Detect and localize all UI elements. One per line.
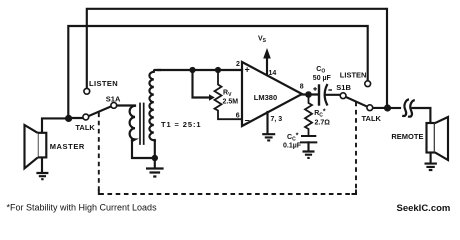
- svg-text:2.5M: 2.5M: [223, 99, 239, 106]
- wire right TALK contact to remote node: [373, 107, 388, 109]
- svg-text:TALK: TALK: [75, 123, 95, 132]
- ground master symbol: [36, 173, 48, 179]
- junction node RV top: [215, 67, 221, 73]
- break symbol left squiggle: [402, 99, 409, 116]
- transformer T1 secondary winding: [149, 70, 160, 141]
- op-amp ground stub pins 7,3: [266, 112, 268, 133]
- svg-text:CC*: CC*: [287, 133, 299, 143]
- svg-text:LISTEN: LISTEN: [340, 70, 367, 79]
- ground master stub: [41, 157, 43, 172]
- wire Cc to ground: [307, 142, 309, 151]
- op-amp U1 LM380 triangle: [242, 62, 302, 126]
- wire S1A to transformer primary: [117, 104, 135, 106]
- wire RV wiper tap: [193, 70, 210, 98]
- capacitor Co curved plate: [325, 85, 327, 105]
- svg-text:6: 6: [236, 113, 240, 120]
- transformer T1 primary winding: [130, 106, 135, 141]
- wire output pin 8: [302, 93, 318, 95]
- contact S1B: [340, 93, 346, 99]
- svg-text:CO: CO: [316, 66, 325, 75]
- dashed mechanical link S1: [99, 100, 356, 194]
- wire primary bottom to ground node: [132, 140, 155, 158]
- wire Co to S1B contact: [325, 94, 340, 96]
- svg-text:8: 8: [300, 84, 304, 91]
- speaker REMOTE body: [427, 123, 435, 153]
- contact TALK left: [83, 114, 89, 120]
- wire ground node stub: [154, 158, 156, 168]
- label plus Co: [313, 87, 317, 91]
- svg-text:50 µF: 50 µF: [313, 75, 332, 82]
- contact LISTEN right: [365, 81, 371, 87]
- svg-text:0.1µF: 0.1µF: [283, 142, 302, 149]
- wire remote node to break: [388, 107, 401, 109]
- svg-text:2: 2: [236, 61, 240, 68]
- Vs supply line pin 14: [266, 57, 268, 75]
- svg-text:*For Stability with High Curre: *For Stability with High Current Loads: [7, 203, 158, 213]
- label minus Co: [328, 89, 332, 91]
- wire master speaker to talk node: [42, 118, 69, 132]
- junction node transformer ground: [152, 155, 158, 161]
- break symbol right squiggle: [408, 100, 415, 117]
- switch arm S1B: [346, 97, 368, 107]
- svg-text:7, 3: 7, 3: [271, 116, 283, 123]
- speaker MASTER cone: [25, 125, 38, 168]
- wire break to remote speaker: [413, 108, 431, 123]
- svg-text:LM380: LM380: [254, 93, 277, 102]
- contact LISTEN left: [84, 88, 90, 94]
- svg-text:2.7Ω: 2.7Ω: [315, 120, 331, 127]
- wire top inner loop: [68, 26, 367, 117]
- ground remote stub: [430, 153, 432, 164]
- junction node master/talk: [65, 115, 72, 122]
- ground op-amp symbol: [262, 134, 275, 140]
- svg-text:S1A: S1A: [106, 94, 121, 103]
- svg-text:+: +: [245, 65, 250, 75]
- wire node to TALK contact: [69, 117, 83, 119]
- svg-text:VS: VS: [258, 36, 267, 45]
- junction node output: [305, 91, 312, 98]
- svg-text:S1B: S1B: [336, 83, 351, 92]
- dashed link corner right: [352, 190, 357, 195]
- svg-text:SeekIC.com: SeekIC.com: [397, 203, 451, 214]
- wire secondary bottom to ground node: [154, 140, 156, 158]
- RV wiper arrowhead: [209, 94, 215, 101]
- junction node remote: [384, 104, 391, 111]
- svg-text:LISTEN: LISTEN: [89, 79, 118, 88]
- zobel RC 2.7 ohm zigzag: [305, 95, 312, 136]
- switch arm S1A: [88, 106, 111, 116]
- svg-text:RC*: RC*: [314, 109, 326, 119]
- ground remote symbol: [425, 164, 437, 170]
- ground Cc symbol: [303, 152, 315, 158]
- contact S1A: [111, 103, 117, 109]
- svg-text:REMOTE: REMOTE: [391, 132, 423, 141]
- ground transformer symbol: [146, 169, 164, 177]
- resistor RV 2.5M zigzag: [215, 70, 243, 119]
- Vs arrowhead: [263, 48, 271, 59]
- capacitor Co left plate: [318, 86, 320, 105]
- speaker REMOTE cone: [435, 117, 448, 160]
- wire top outer loop: [87, 9, 387, 105]
- svg-text:MASTER: MASTER: [50, 142, 85, 151]
- transformer core: [140, 104, 144, 145]
- wire secondary top to op-amp input pin 2: [158, 69, 242, 71]
- svg-text:−: −: [245, 116, 250, 126]
- contact TALK right: [367, 105, 373, 111]
- svg-text:T1 = 25:1: T1 = 25:1: [161, 120, 201, 129]
- svg-text:RV: RV: [223, 90, 232, 99]
- capacitor Cc top plate: [302, 135, 315, 137]
- svg-text:TALK: TALK: [362, 114, 382, 123]
- svg-text:14: 14: [269, 70, 277, 77]
- dashed link corner left: [99, 190, 104, 195]
- speaker MASTER body: [38, 133, 47, 158]
- capacitor Cc bottom plate: [301, 141, 316, 143]
- junction node wiper tap: [189, 67, 195, 73]
